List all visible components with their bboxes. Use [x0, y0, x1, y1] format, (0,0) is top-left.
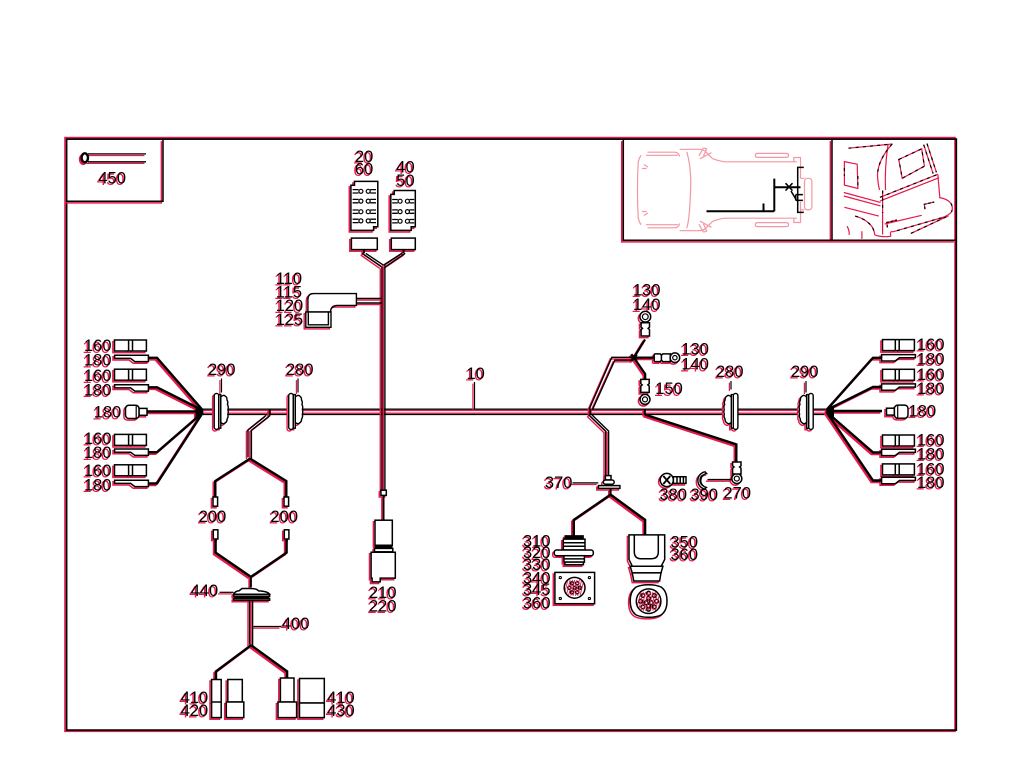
right inset: truck rear three-quarter view: [844, 144, 953, 239]
main harness 10 red inner lines: [203, 411, 827, 414]
right inset: black accent dashes: [844, 144, 952, 235]
outer frame red copy: [65, 138, 955, 732]
main harness 10 black outer lines: [203, 409, 827, 414]
red pin-field hatch of round connector: [634, 592, 663, 611]
red pin-field hatch of plate connector: [562, 580, 584, 596]
left inset: harness routing (black): [707, 167, 804, 212]
black pass of all components: [67, 140, 956, 721]
left inset: van top view outline: [637, 148, 811, 232]
outer frame black: [67, 139, 957, 730]
red shadow pass of all components: [65, 141, 954, 722]
